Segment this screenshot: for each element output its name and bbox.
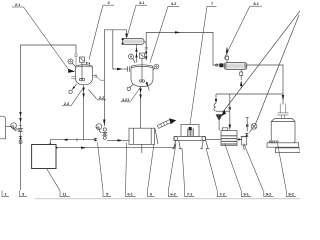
tank 8-2 base plate bbox=[267, 141, 299, 147]
swan neck down pipe bbox=[214, 94, 230, 111]
label 1 bbox=[2, 191, 9, 197]
label 2-3 bbox=[62, 88, 83, 106]
box 11 bbox=[32, 145, 56, 169]
label 9-2 bbox=[244, 144, 274, 197]
svg-text:6: 6 bbox=[150, 191, 153, 196]
reactor R2-1 feed top flange bbox=[74, 54, 78, 65]
condensate pipe 4-1 to R2 bbox=[144, 41, 146, 45]
valve V2 (black) on left pipe bbox=[19, 136, 23, 139]
left flow arrow on y=140 line bbox=[63, 139, 68, 141]
tank 8-2 neck flange bbox=[278, 104, 289, 119]
svg-text:8-2: 8-2 bbox=[288, 191, 294, 196]
label 4-21 bbox=[121, 87, 142, 102]
funnel into filter box bbox=[216, 114, 223, 130]
bottom recirculation line y=140 bbox=[50, 140, 95, 145]
reactor R2 vessel bbox=[131, 65, 153, 87]
vapor arrow from box 6 bbox=[157, 118, 176, 128]
R2 pipe to condenser 2 bbox=[146, 32, 219, 65]
svg-text:2-1: 2-1 bbox=[15, 2, 21, 7]
label 6-1 bbox=[126, 143, 136, 197]
lower plate bbox=[276, 148, 301, 153]
svg-text:2-3: 2-3 bbox=[64, 101, 70, 106]
label 2-2 leader bbox=[88, 89, 106, 100]
filter press bar and ends bbox=[174, 137, 206, 141]
svg-text:6-1: 6-1 bbox=[127, 191, 133, 196]
condenser 4-3 bbox=[216, 63, 247, 70]
label 4-1 bbox=[127, 0, 147, 37]
R2 bottom right stub bbox=[146, 82, 150, 91]
arrow into box 6 bbox=[107, 139, 129, 141]
label 7-2 bbox=[206, 148, 227, 197]
press outlet to filter box bbox=[206, 138, 221, 140]
filter press legs bbox=[172, 141, 209, 149]
fitting circle on left pipe bbox=[19, 141, 22, 144]
filter box 9 (striped) bbox=[221, 128, 237, 146]
label 8-2 bbox=[278, 144, 297, 197]
raw tank T1 (left edge) bbox=[0, 116, 6, 139]
R1 left mid nozzle bbox=[71, 77, 75, 79]
label 7-1 bbox=[182, 148, 195, 197]
condenser 4-3 top vent arrow bbox=[226, 47, 229, 63]
reactor R2 agitator bbox=[139, 59, 144, 83]
feed arrow into R2 bbox=[117, 66, 130, 71]
label 6-2 bbox=[168, 144, 178, 197]
svg-text:9-2: 9-2 bbox=[266, 191, 272, 196]
label 2 bbox=[89, 0, 114, 59]
condenser 4-3 bottom cooling fitting bbox=[240, 70, 243, 89]
black valve on y=140 at cluster bbox=[94, 138, 98, 141]
receiver pot bbox=[241, 137, 248, 151]
filter press 7 bbox=[181, 125, 199, 137]
svg-text:6-2: 6-2 bbox=[170, 191, 176, 196]
box 6 diag line right bbox=[155, 129, 158, 145]
label 6 bbox=[148, 145, 155, 197]
riser pipe to condenser 4-1 bbox=[104, 30, 126, 126]
label 2-1 bbox=[12, 2, 69, 70]
tick fitting on y=140 line bbox=[76, 138, 78, 141]
svg-text:4-1: 4-1 bbox=[139, 0, 145, 5]
R1 bottom drain valve and circle bbox=[69, 84, 77, 94]
rotary valve cluster under P2 bbox=[103, 128, 107, 139]
label 11 bbox=[47, 169, 71, 197]
flow arrows down on left pipe bbox=[19, 112, 21, 123]
svg-text:7-1: 7-1 bbox=[187, 191, 193, 196]
valve V1 on left pipe bbox=[19, 129, 23, 132]
bottom labels bbox=[2, 143, 296, 197]
svg-text:1: 1 bbox=[4, 191, 7, 196]
R2 vapor pipe up to condenser bbox=[136, 44, 138, 62]
reactor R1 gauge G1 bbox=[68, 59, 76, 67]
svg-text:3: 3 bbox=[22, 191, 25, 196]
condenser 4-1 bbox=[122, 38, 144, 45]
feed arrow 2-1 into R1 bbox=[68, 69, 75, 73]
R1 outlet flow arrows bbox=[82, 88, 84, 99]
reactor R1 motor M1 bbox=[80, 57, 85, 62]
box 6 bottom stub bbox=[141, 144, 143, 153]
flow arrow on y=147.7 bbox=[81, 147, 87, 149]
condensate receiver loop (swan neck line) bbox=[216, 93, 283, 95]
reactor R1 agitator bbox=[79, 63, 84, 81]
feed pipe to R2 bbox=[113, 30, 117, 69]
svg-text:4-2: 4-2 bbox=[171, 1, 177, 6]
svg-text:7: 7 bbox=[211, 1, 214, 6]
reactor R2 motor M2 bbox=[140, 53, 145, 58]
bottom faint baseline bbox=[35, 198, 300, 200]
svg-text:8-1: 8-1 bbox=[253, 1, 259, 6]
corner leader lines to off-page labels bbox=[221, 11, 300, 124]
R1 bottom outlet pipe down to y=140 bbox=[83, 85, 85, 140]
reactor R2 gauge G2 bbox=[129, 54, 136, 63]
arrow filter box to receiver pot bbox=[237, 138, 242, 140]
box 6 (trough with double walls) bbox=[129, 128, 155, 144]
svg-text:2: 2 bbox=[107, 0, 110, 5]
reactor R1 vessel bbox=[76, 65, 93, 85]
R2 bottom outlet down to box 6 bbox=[140, 87, 142, 129]
down arrow into filter box bbox=[229, 94, 231, 130]
svg-text:9-1: 9-1 bbox=[243, 191, 249, 196]
tank 8-2 body bbox=[271, 118, 295, 143]
pot riser pipe bbox=[246, 118, 249, 132]
label 4-2 bbox=[150, 1, 179, 62]
vacuum pump circle with cross bbox=[249, 124, 256, 133]
R2 bottom drain bbox=[127, 85, 133, 91]
svg-text:7-2: 7-2 bbox=[219, 191, 225, 196]
jacket circuit line 3: left vertical bbox=[21, 45, 77, 190]
reactor R2 right gauge G3 bbox=[153, 64, 159, 70]
label 9-1 bbox=[225, 143, 252, 196]
black valve between pot and pump bbox=[245, 133, 249, 136]
svg-text:11: 11 bbox=[63, 191, 68, 196]
label 9 bbox=[190, 1, 217, 124]
label 8-1 bbox=[224, 1, 262, 59]
svg-text:5: 5 bbox=[106, 191, 109, 196]
condensate line to tank 8-2 bbox=[247, 65, 283, 105]
pump P1 bbox=[6, 123, 20, 131]
riser down arrow bbox=[103, 34, 128, 126]
pump P2 circle bbox=[96, 124, 102, 133]
svg-text:4-21: 4-21 bbox=[122, 97, 130, 102]
box 11 outlet junction bbox=[56, 143, 175, 149]
R1 top nozzle stubs bbox=[86, 62, 90, 65]
label 5 bbox=[98, 143, 112, 197]
label 3 bbox=[19, 191, 27, 197]
R1 right nozzle to pipe bbox=[93, 74, 105, 80]
